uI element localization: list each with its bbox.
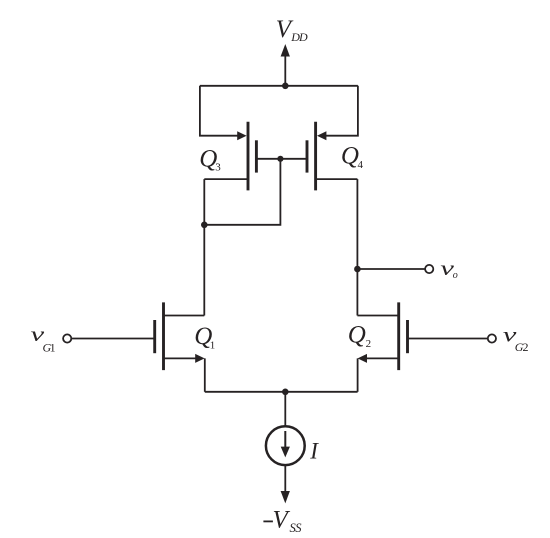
- wire left column (Q3 drain to Q1 drain): [203, 179, 205, 315]
- power VDD arrowhead: [281, 44, 290, 57]
- terminal vG2 circle: [488, 334, 496, 342]
- svg-text:2: 2: [366, 338, 372, 350]
- node VDD junction dot: [282, 83, 289, 90]
- wire Q3 source drop (left): [200, 86, 240, 136]
- svg-text:V: V: [273, 507, 291, 534]
- terminal vo circle: [425, 265, 433, 273]
- wire Q4 source drop (right): [323, 86, 358, 136]
- wire source rail: [205, 391, 358, 393]
- node tail junction dot: [282, 389, 289, 396]
- svg-text:Q: Q: [341, 143, 359, 170]
- node gate junction dot: [277, 156, 283, 162]
- wire right column (Q4 drain to Q2 drain): [356, 179, 358, 315]
- wire tail lead: [284, 392, 286, 427]
- svg-text:Q: Q: [348, 322, 366, 349]
- transistor Q4 (PMOS): [307, 122, 357, 191]
- svg-text:o: o: [453, 270, 458, 281]
- svg-text:DD: DD: [290, 30, 308, 44]
- wire output tap: [357, 268, 425, 270]
- power VSS arrowhead: [281, 491, 290, 503]
- current source I: [266, 426, 305, 465]
- wire vG2 input: [408, 338, 488, 340]
- svg-text:I: I: [309, 438, 319, 463]
- transistor Q3 (PMOS): [204, 122, 256, 191]
- transistor Q2 (NMOS): [357, 302, 407, 391]
- transistor Q1 (NMOS): [155, 302, 205, 391]
- wire VSS lead: [284, 465, 286, 493]
- wire gate link Q3-Q4: [256, 158, 307, 160]
- wire vG1 input: [72, 338, 155, 340]
- terminal vG1 circle: [63, 334, 71, 342]
- power VDD arrow lead: [284, 54, 286, 86]
- svg-text:2: 2: [523, 340, 529, 354]
- svg-text:1: 1: [50, 340, 56, 354]
- svg-text:3: 3: [215, 161, 221, 173]
- svg-text:1: 1: [210, 340, 216, 352]
- label -VSS: [263, 520, 273, 522]
- svg-text:4: 4: [358, 159, 364, 171]
- node output junction dot: [354, 266, 361, 273]
- svg-text:SS: SS: [290, 521, 303, 535]
- node drain-gate junction dot: [201, 222, 208, 229]
- wire VDD rail: [200, 85, 358, 87]
- wire gate drop to drain link: [204, 159, 280, 225]
